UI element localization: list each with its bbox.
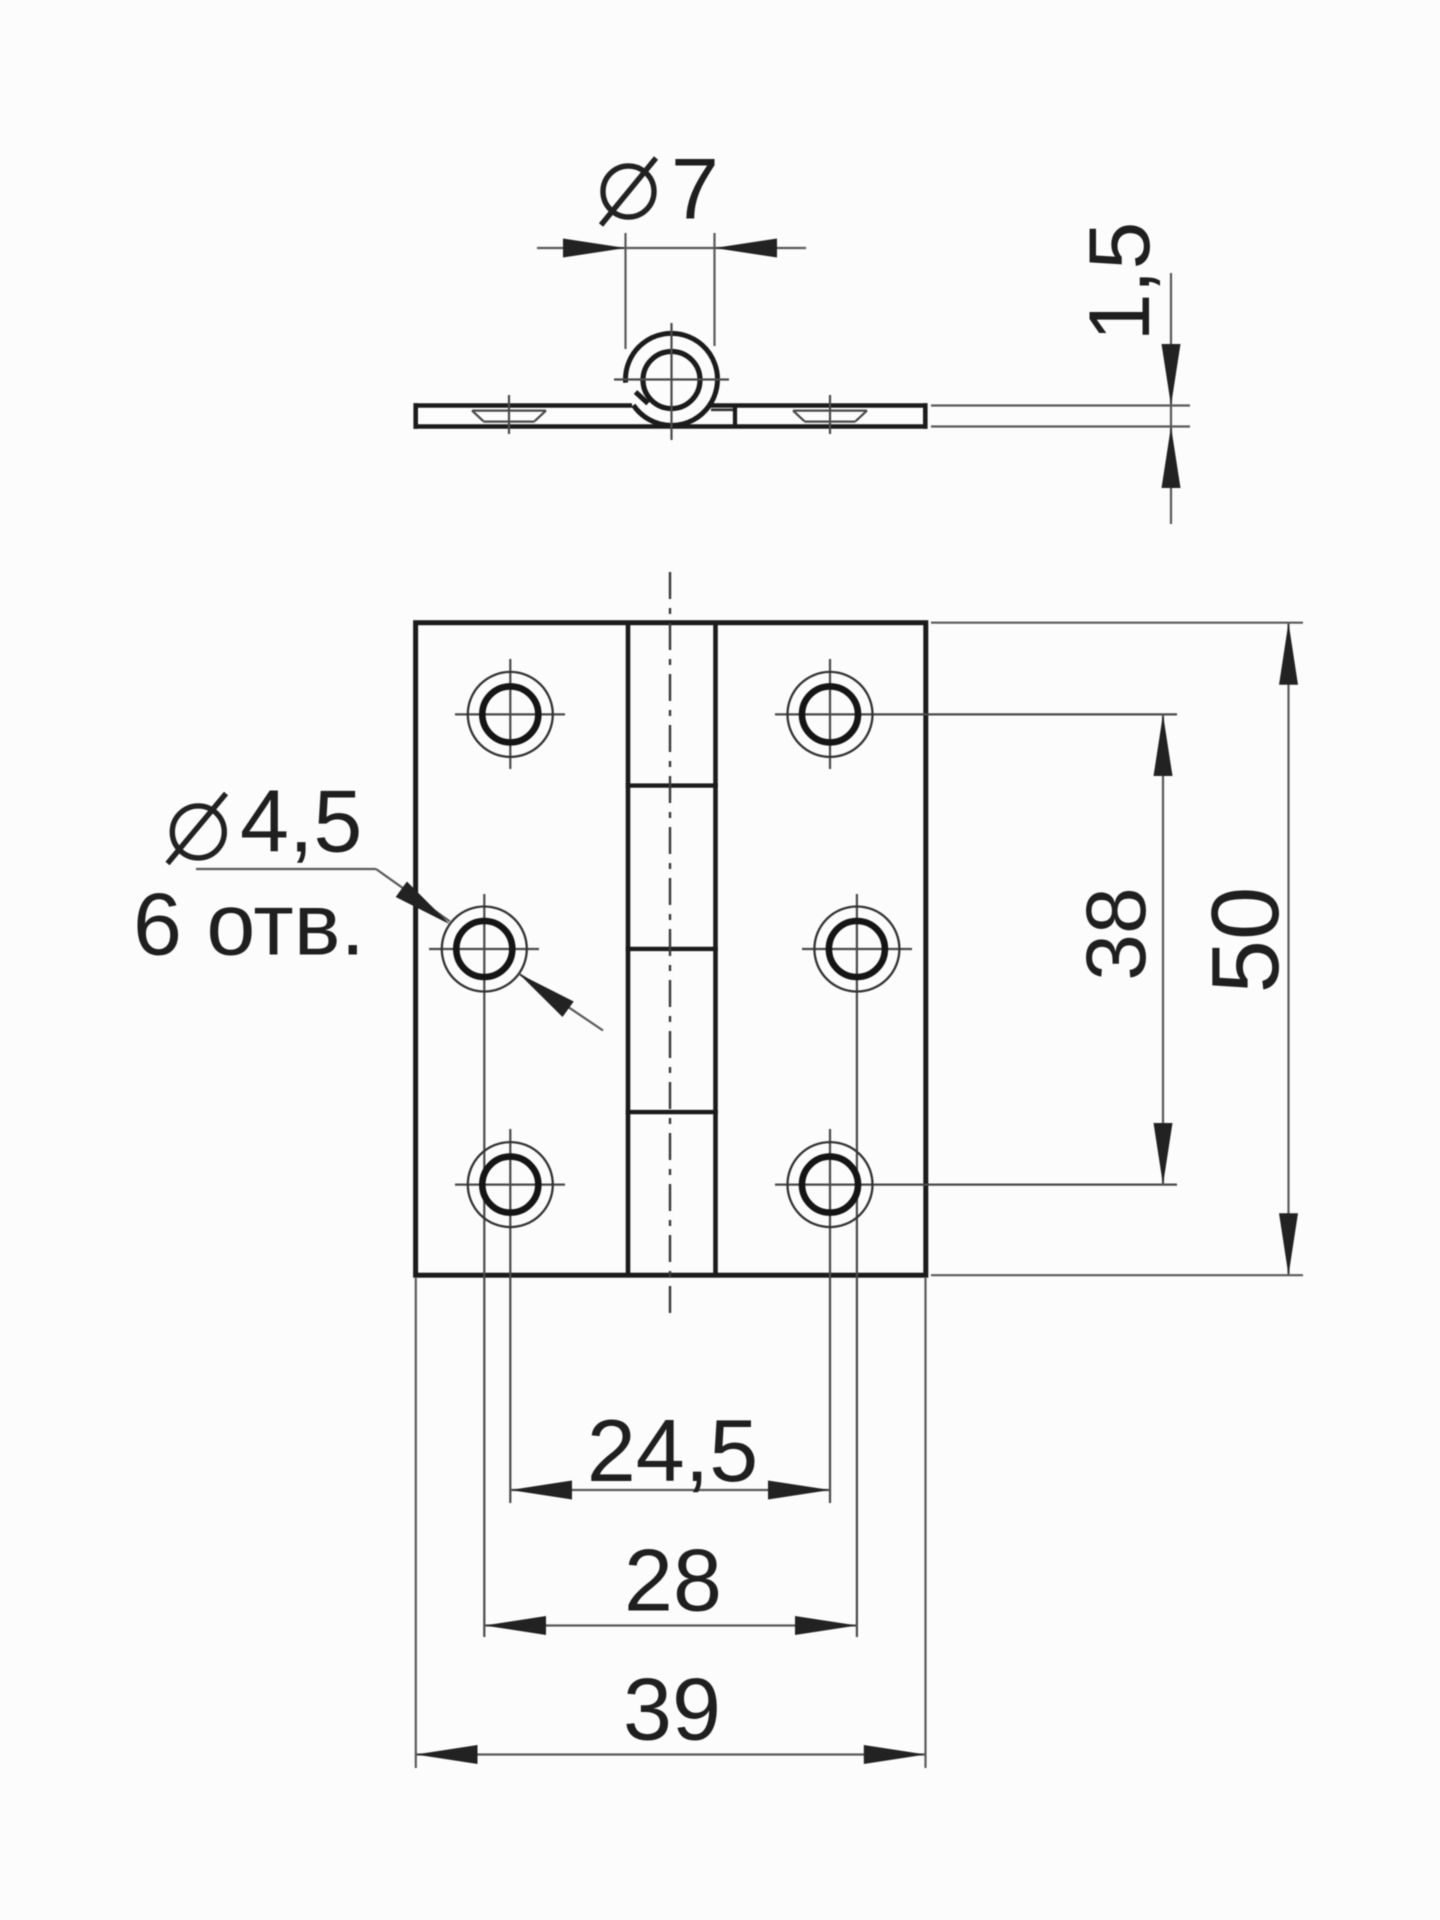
svg-text:39: 39 <box>623 1660 721 1759</box>
hinge axis center line <box>669 572 671 1322</box>
dimension d7 line <box>537 239 806 258</box>
dimension d7 witness lines <box>626 233 715 349</box>
dimension 1,5 line and arrows <box>1162 273 1181 524</box>
plate top line right segment <box>709 403 928 408</box>
dimension 39 label <box>623 1660 721 1759</box>
hole middle-left <box>429 894 539 1637</box>
dimension 1,5 label <box>1072 222 1168 342</box>
dimension 50 extension lines <box>931 623 1303 1275</box>
dimension 50 label <box>1192 887 1299 994</box>
svg-text:28: 28 <box>624 1531 722 1630</box>
hole callout label d4,5 <box>168 772 363 871</box>
plate top line left segment <box>414 403 633 408</box>
dimension 38 line <box>1154 714 1173 1184</box>
dimension 28 label <box>624 1531 722 1630</box>
svg-text:50: 50 <box>1192 887 1299 994</box>
plate bottom line <box>414 424 928 429</box>
leaf joint edge line <box>711 408 736 426</box>
svg-text:38: 38 <box>1069 887 1163 980</box>
dimension 24,5 label <box>587 1401 758 1500</box>
plate right end cap <box>923 403 928 429</box>
barrel pin hole <box>643 352 700 409</box>
hole bottom-right <box>775 1129 1177 1503</box>
plate left end cap <box>413 403 418 429</box>
dimension 28 line <box>484 1616 857 1635</box>
dimension 50 line <box>1279 623 1298 1275</box>
hole bottom-left <box>455 1129 565 1503</box>
svg-text:6 отв.: 6 отв. <box>133 875 365 974</box>
barrel (pin knuckle) outer curl <box>625 333 717 425</box>
dimension d7 label <box>601 142 719 238</box>
dimension 39 line <box>416 1745 926 1764</box>
hole callout leader <box>196 869 603 1031</box>
knuckle strip right line <box>713 622 718 1276</box>
svg-text:4,5: 4,5 <box>240 772 362 871</box>
knuckle joint line 3 <box>626 1110 718 1114</box>
knuckle strip left line <box>626 622 631 1276</box>
barrel center mark <box>614 323 729 440</box>
knuckle joint line 1 <box>626 783 718 787</box>
hole top-left <box>455 659 565 769</box>
dimension 1,5 extension lines <box>931 406 1190 427</box>
dimension 39 witness lines <box>416 1278 926 1768</box>
dimension 38 label <box>1069 887 1163 980</box>
hole top-right <box>775 659 1177 769</box>
svg-text:7: 7 <box>671 142 719 238</box>
countersink right (top view) <box>793 395 867 434</box>
knuckle joint line 2 <box>626 947 718 951</box>
hole middle-right <box>802 894 912 1637</box>
svg-text:24,5: 24,5 <box>587 1401 758 1500</box>
hole callout label 6 otv <box>133 875 365 974</box>
svg-text:1,5: 1,5 <box>1072 222 1168 342</box>
countersink left (top view) <box>472 395 546 434</box>
front plate outline <box>416 623 926 1275</box>
dimension 24,5 line <box>510 1481 830 1500</box>
